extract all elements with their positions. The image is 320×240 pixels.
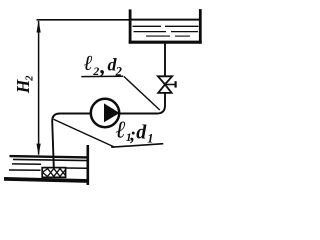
svg-text:1: 1 — [147, 131, 153, 145]
svg-text:2: 2 — [92, 64, 99, 78]
svg-text:d: d — [136, 121, 147, 143]
svg-text:;: ; — [130, 125, 136, 145]
svg-text:,: , — [99, 53, 106, 78]
svg-text:2: 2 — [115, 65, 122, 79]
svg-text:ℓ: ℓ — [84, 51, 93, 75]
svg-text:ℓ: ℓ — [116, 117, 126, 143]
svg-text:2: 2 — [25, 75, 36, 82]
